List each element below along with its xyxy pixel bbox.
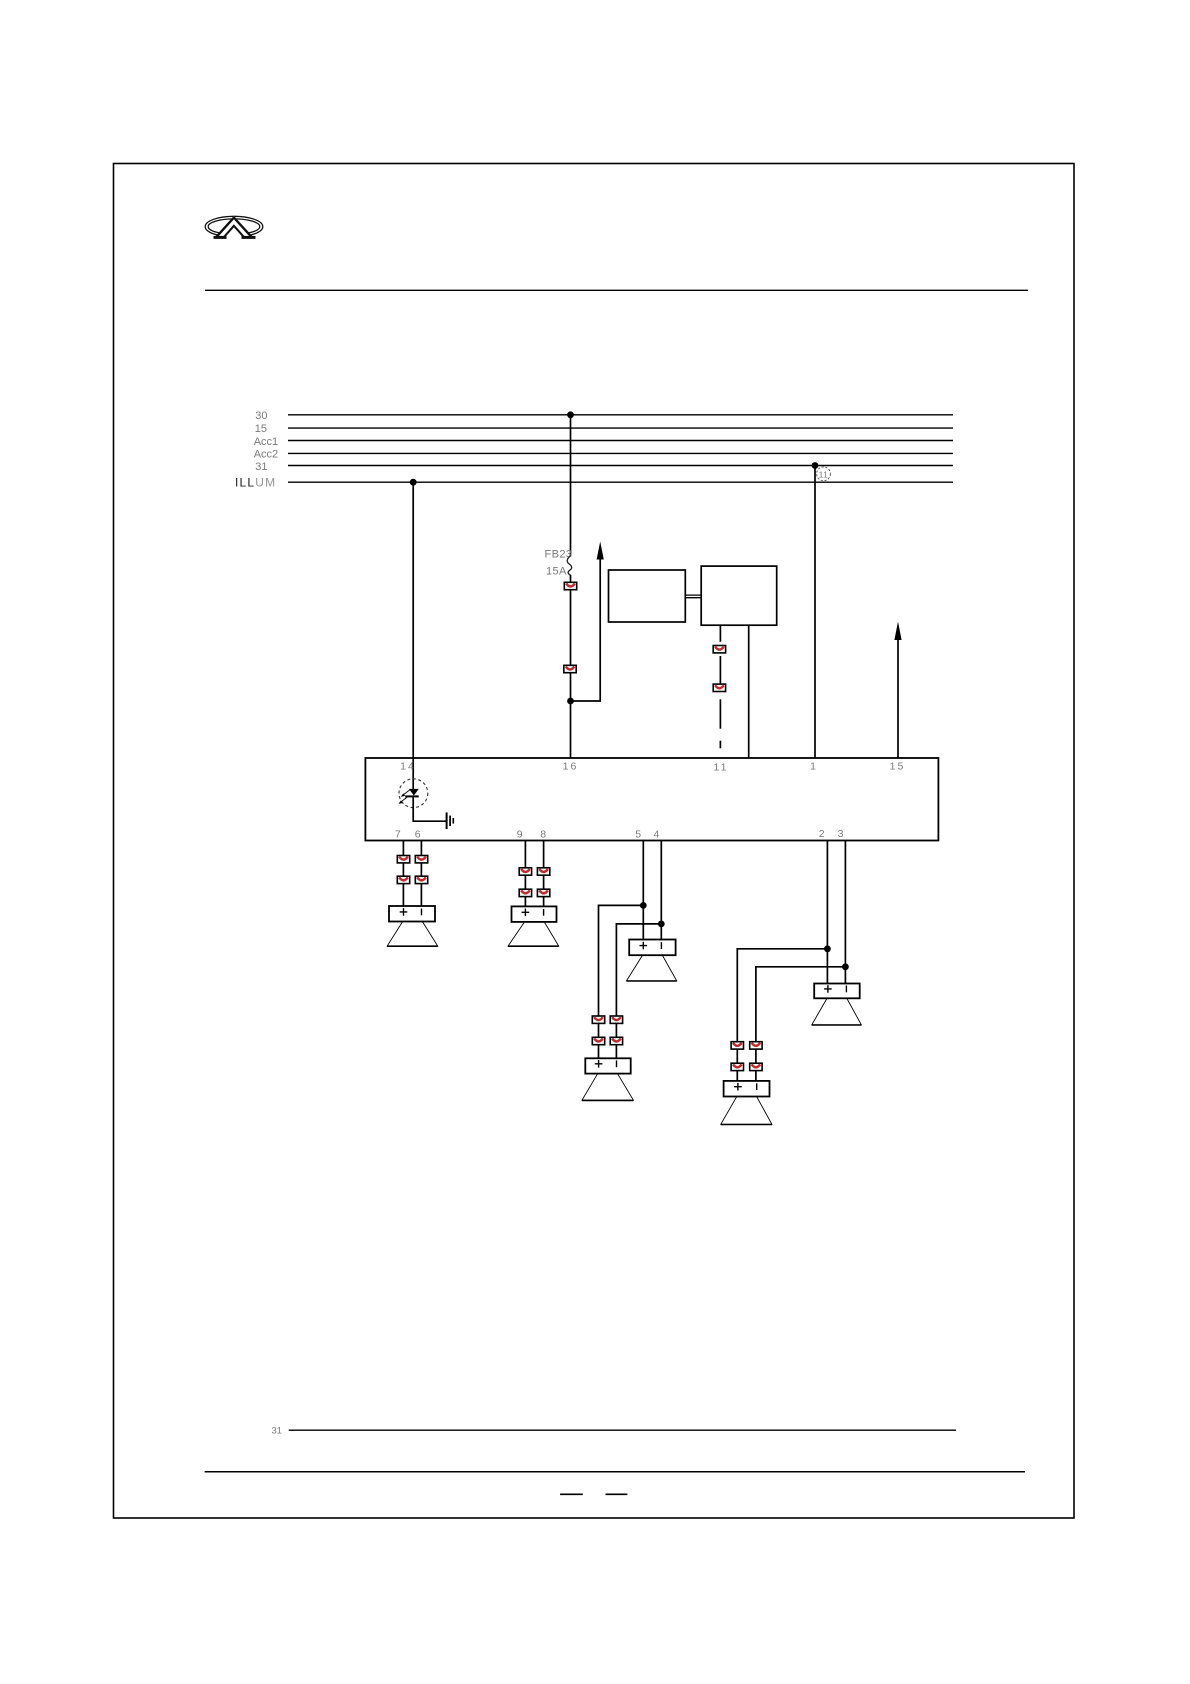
box B — [701, 566, 777, 625]
svg-text:2: 2 — [819, 828, 825, 840]
connector on fuse wire lower — [564, 665, 576, 672]
connector mid-right lower — [610, 1037, 622, 1044]
svg-text:9: 9 — [517, 829, 523, 841]
svg-text:7: 7 — [395, 828, 401, 840]
svg-text:30: 30 — [255, 410, 267, 422]
wire jog from pin4 junction — [616, 924, 661, 1058]
note marker circled 11 — [817, 467, 831, 481]
connector right-left upper — [731, 1042, 743, 1049]
connector right-right upper — [750, 1042, 762, 1049]
svg-text:4: 4 — [653, 828, 659, 840]
wire pin 3 — [844, 841, 846, 984]
page number dash left — [560, 1493, 583, 1495]
connector pin7 upper — [397, 856, 409, 863]
wire ILLUM to pin 14 — [412, 482, 414, 789]
junction pin3 wire — [842, 963, 849, 970]
connector on pin11 wire lower — [713, 684, 725, 691]
Chery logo — [205, 216, 263, 239]
svg-text:31: 31 — [255, 461, 267, 473]
wire branch to left arrow — [571, 558, 601, 701]
ground symbol — [447, 812, 454, 829]
wire jog from pin5 junction — [599, 905, 644, 1058]
wire junction to pin 16 — [570, 701, 572, 758]
header rule — [205, 289, 1028, 291]
speaker rear right — [721, 1081, 772, 1125]
svg-text:15A: 15A — [546, 566, 567, 578]
main unit box — [365, 758, 938, 841]
connector on fuse wire upper — [564, 582, 576, 589]
speaker tweeter rear right — [812, 984, 862, 1026]
junction on rail 30 — [567, 411, 574, 418]
wire pin 7 — [402, 841, 404, 907]
wire pin 8 — [543, 841, 545, 907]
wire pin 5 — [642, 841, 644, 940]
connector pin7 lower — [397, 876, 409, 883]
connector pin8 upper — [537, 868, 549, 875]
rail 31 wire — [288, 465, 953, 467]
wire pin 15 arrow — [897, 640, 899, 758]
wire LED to ground — [413, 797, 446, 822]
junction on fuse wire — [567, 698, 574, 705]
svg-text:ILLUM: ILLUM — [235, 476, 276, 490]
wire pin 9 — [524, 841, 526, 907]
wire box B right to main unit — [748, 625, 750, 758]
speaker tweeter right — [627, 940, 677, 982]
wire pin 6 — [420, 841, 422, 907]
rail ILLUM wire — [288, 481, 953, 483]
rail Acc2 wire — [288, 452, 953, 454]
connector mid-right upper — [610, 1016, 622, 1023]
wire fuse to junction — [570, 575, 572, 701]
connector mid-left upper — [592, 1016, 604, 1023]
wire pin 4 — [660, 841, 662, 940]
svg-text:11: 11 — [819, 469, 829, 479]
connector on pin11 wire upper — [713, 646, 725, 653]
connector pin8 lower — [537, 889, 549, 896]
link bar between boxes — [685, 595, 701, 598]
svg-text:11: 11 — [714, 762, 729, 774]
LED illumination symbol — [399, 779, 428, 808]
wire pin 2 — [826, 841, 828, 984]
connector pin6 upper — [415, 856, 427, 863]
junction pin4 wire — [658, 921, 665, 928]
speaker front left — [387, 906, 438, 946]
svg-text:15: 15 — [890, 761, 906, 773]
svg-text:14: 14 — [400, 761, 416, 773]
svg-text:6: 6 — [415, 828, 421, 840]
connector right-right lower — [750, 1063, 762, 1070]
wire rail30 to fuse — [570, 415, 572, 556]
box A — [609, 570, 686, 622]
fuse symbol — [567, 556, 571, 576]
svg-text:8: 8 — [540, 829, 546, 841]
speaker rear left — [582, 1058, 633, 1100]
connector pin9 lower — [519, 889, 531, 896]
svg-text:Acc1: Acc1 — [254, 436, 278, 448]
rail 15 wire — [288, 427, 953, 429]
junction pin2 wire — [824, 945, 831, 952]
connector pin9 upper — [519, 868, 531, 875]
wire jog from pin2 junction — [737, 949, 827, 1081]
arrow head left — [597, 542, 604, 560]
rail 30 wire — [288, 414, 953, 416]
svg-text:5: 5 — [635, 828, 641, 840]
wire jog from pin3 junction — [756, 967, 846, 1081]
svg-text:15: 15 — [255, 423, 267, 435]
svg-text:31: 31 — [272, 1426, 283, 1437]
wire rail31 to pin 1 — [814, 466, 816, 759]
connector pin6 lower — [415, 876, 427, 883]
rail Acc1 wire — [288, 440, 953, 442]
page number dash right — [606, 1493, 628, 1495]
arrow head right — [894, 622, 901, 641]
svg-text:16: 16 — [563, 761, 579, 773]
speaker front right — [508, 906, 559, 946]
svg-text:1: 1 — [810, 761, 816, 773]
junction pin5 wire — [640, 902, 647, 909]
footer rule — [205, 1471, 1025, 1473]
connector right-left lower — [731, 1063, 743, 1070]
junction on rail ILLUM — [410, 479, 417, 486]
svg-text:3: 3 — [838, 828, 844, 840]
svg-text:Acc2: Acc2 — [254, 449, 278, 461]
page border frame — [114, 164, 1075, 1519]
bottom rail 31 wire — [289, 1429, 956, 1431]
junction on rail 31 — [812, 462, 819, 469]
connector mid-left lower — [592, 1037, 604, 1044]
wire box B to pin 11 dashed — [719, 625, 721, 748]
